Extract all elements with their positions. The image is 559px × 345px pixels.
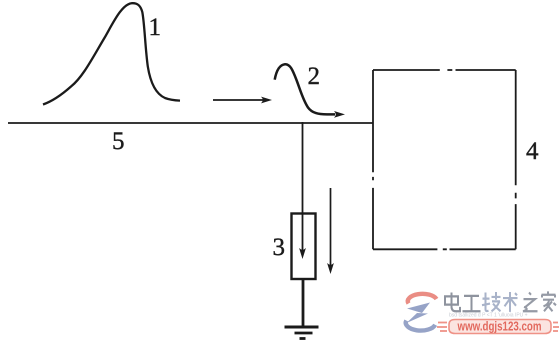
电 — [445, 293, 460, 312]
家 — [542, 291, 557, 311]
watermark logo: blue lightning bowtie — [407, 303, 430, 314]
svg-text:3: 3 — [273, 234, 286, 261]
svg-text:1: 1 — [149, 14, 162, 41]
waveform pulse 2 (with arrow tail) — [275, 64, 345, 118]
wire: main horizontal line (net 5) — [8, 122, 374, 124]
术 — [503, 292, 518, 312]
watermark url banner — [437, 320, 559, 334]
svg-text:bsd tsallized d P <T 1 'ulluoi: bsd tsallized d P <T 1 'ulluoia IPU + — [449, 313, 528, 319]
之 — [523, 293, 538, 312]
工 — [463, 296, 481, 311]
svg-text:5: 5 — [112, 128, 125, 155]
ground — [285, 327, 319, 339]
watermark logo: red top crescent — [408, 294, 437, 304]
wire: vertical drop with arrow into resistor — [299, 122, 306, 259]
技 — [482, 292, 501, 311]
block 4 (protected equipment box, broken outline) — [373, 70, 516, 249]
waveform pulse 1 — [43, 3, 180, 104]
watermark site name (CJK drawn as strokes) — [445, 291, 556, 311]
svg-text:2: 2 — [308, 63, 321, 90]
svg-text:www.dgjs123.com: www.dgjs123.com — [457, 320, 542, 334]
resistor R (3) box — [292, 214, 316, 280]
wire: stub below resistor — [302, 278, 305, 327]
current direction arrow — [327, 188, 334, 274]
svg-text:4: 4 — [526, 138, 539, 165]
watermark logo: blue bottom crescent — [406, 321, 435, 331]
arrow (propagation direction) — [213, 97, 272, 104]
